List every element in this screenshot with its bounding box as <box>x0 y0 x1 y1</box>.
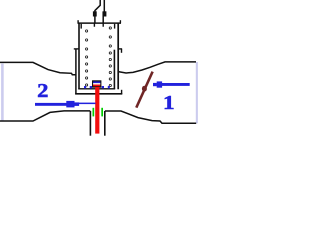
pipe top wall right <box>119 62 196 73</box>
dots column right <box>109 27 111 87</box>
pin bushing left <box>93 11 97 16</box>
cover end tick left <box>77 20 79 23</box>
beaker inner right wall <box>113 50 115 90</box>
heater box red stripe <box>93 85 100 87</box>
label 2 <box>37 79 48 102</box>
cover end tick right <box>119 20 121 23</box>
pipe left opening (lavender) <box>1 64 4 121</box>
beaker right rim <box>118 48 122 50</box>
svg-text:1: 1 <box>163 91 175 113</box>
thermometer stem <box>136 72 152 108</box>
probe gland tube right <box>104 111 106 136</box>
vessel inner bottom <box>78 88 115 90</box>
beaker left rim <box>74 48 79 50</box>
heater box white stripe <box>93 83 100 84</box>
pipe bottom wall left <box>0 111 90 121</box>
pipe right opening (lavender) <box>196 62 198 123</box>
green seal right <box>101 108 103 117</box>
beaker right rim drop <box>121 49 123 53</box>
heater box blue stripe <box>93 82 100 84</box>
blue thin lead line <box>79 103 96 105</box>
cover hook right <box>114 24 116 29</box>
vessel top cover <box>78 22 122 24</box>
pin bushing right <box>103 11 107 16</box>
label 1 <box>163 91 175 113</box>
thermometer bulb <box>142 86 147 92</box>
liquid drop 3 <box>102 86 104 88</box>
dots column left <box>86 30 88 86</box>
red probe line <box>95 87 99 134</box>
beaker left wall <box>75 49 77 95</box>
heater box <box>92 80 101 87</box>
vessel tube right wall <box>117 23 119 89</box>
vessel tube left wall <box>78 23 80 89</box>
cover hook left <box>80 24 82 29</box>
pins below cover <box>94 23 103 27</box>
liquid drop 2 <box>90 86 92 88</box>
probe gland tube left <box>89 111 91 136</box>
wire pin left <box>95 0 100 23</box>
pipe top wall left <box>0 62 76 74</box>
arrow 2 (left, pointing right) <box>35 101 79 108</box>
beaker bottom lip right <box>121 90 123 94</box>
green seal left <box>93 108 95 117</box>
pipe bottom wall right <box>105 111 196 123</box>
liquid drop 1 <box>84 86 86 88</box>
arrow 1 (right, pointing left) <box>153 81 190 87</box>
vessel outer bottom <box>75 93 122 95</box>
liquid drop 4 <box>108 86 110 88</box>
wire pin right <box>103 0 104 23</box>
svg-text:2: 2 <box>37 79 48 102</box>
